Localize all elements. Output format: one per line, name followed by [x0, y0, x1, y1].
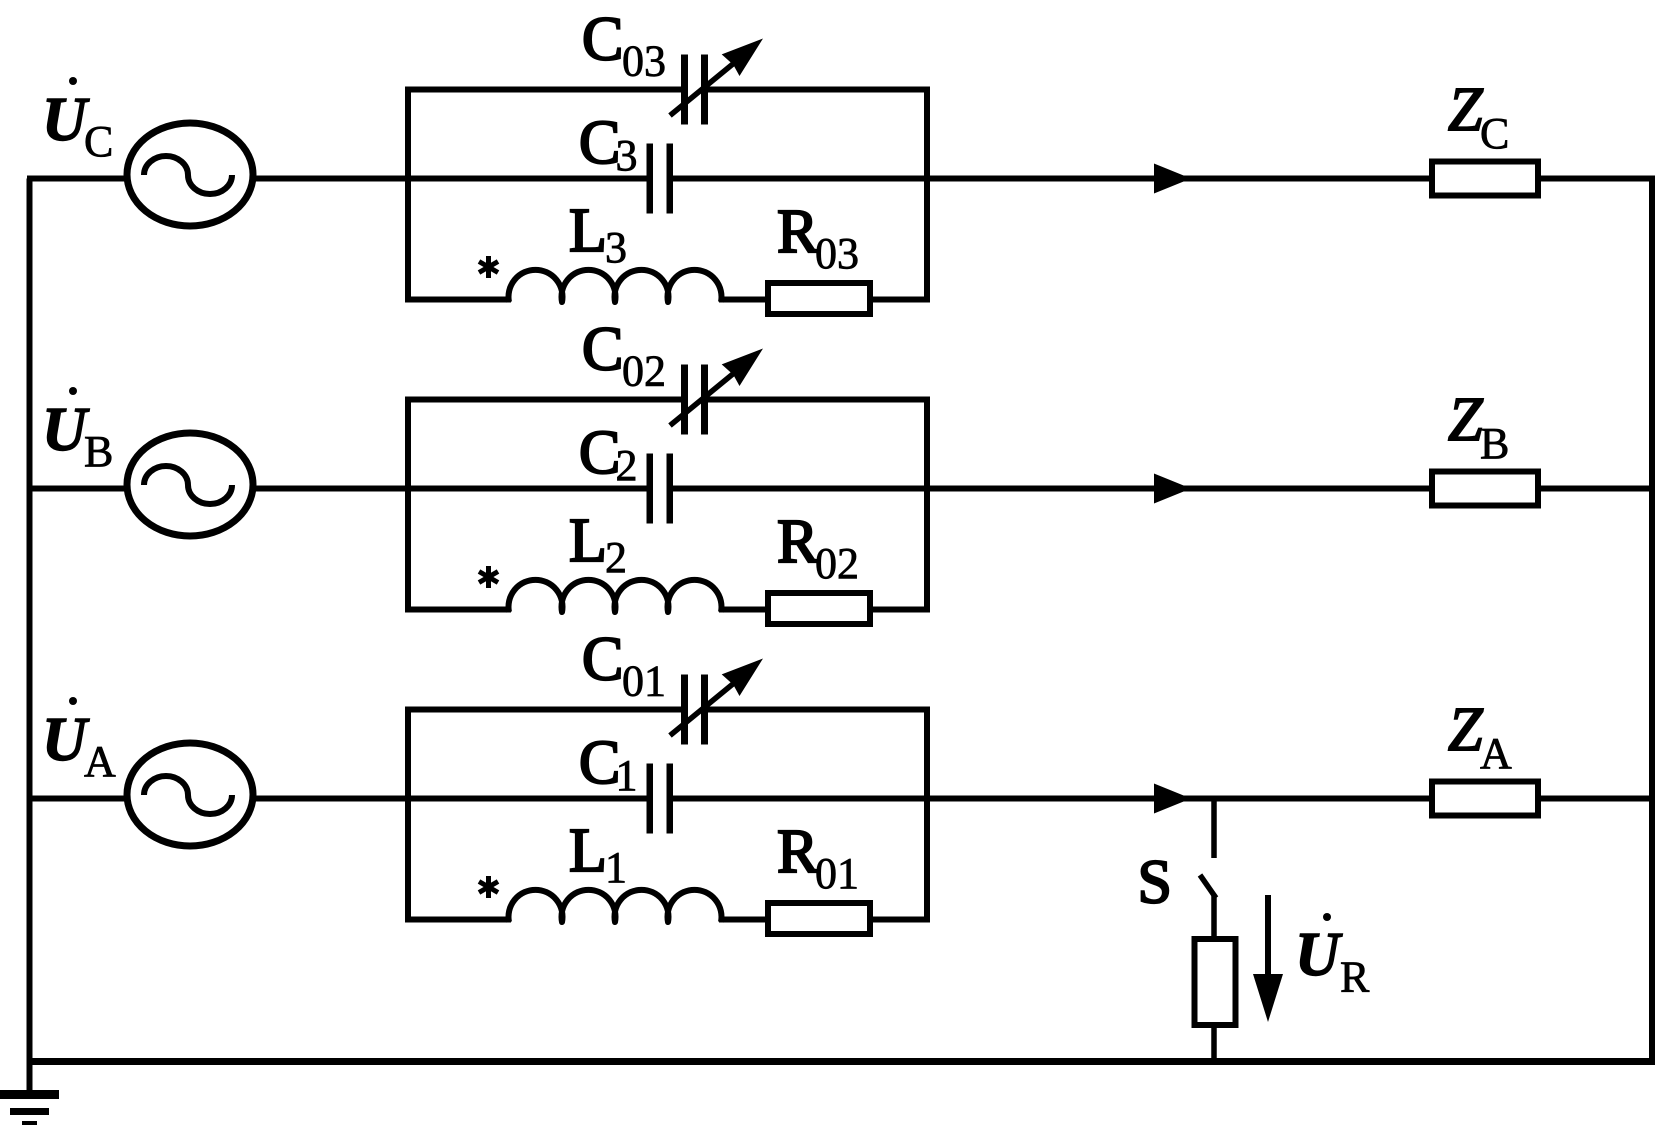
wire: bottom branch left	[405, 297, 511, 303]
wire: right bus	[1649, 176, 1655, 1062]
svg-text:L: L	[569, 197, 607, 265]
svg-text:Z: Z	[1448, 76, 1483, 144]
svg-text:C: C	[1480, 109, 1509, 158]
wire: ZC to right bus	[1541, 176, 1655, 182]
svg-text:L: L	[569, 507, 607, 575]
inductor L2	[509, 580, 722, 612]
current arrow phase C	[1154, 164, 1191, 194]
node: box right bus	[924, 710, 930, 920]
inductor L1	[509, 890, 722, 922]
svg-text:B: B	[84, 427, 113, 476]
svg-text:3: 3	[605, 223, 627, 272]
label C01	[582, 626, 666, 706]
label L2	[569, 507, 627, 582]
wire: top branch right	[705, 707, 930, 713]
wire: ZA to right bus	[1541, 796, 1655, 802]
wire: bottom return bus	[27, 1058, 1656, 1065]
svg-text:03: 03	[815, 229, 859, 278]
wire: source to capacitor C1	[250, 796, 648, 802]
variable capacitor C03 plates	[681, 55, 708, 125]
label UR	[1295, 913, 1370, 1002]
svg-text:1: 1	[605, 843, 627, 892]
wire: inductor to R02	[719, 607, 768, 613]
AC source UC	[127, 123, 253, 226]
label R02	[777, 508, 859, 588]
label C1	[579, 729, 638, 800]
wire: inductor to R01	[719, 917, 768, 923]
svg-text:C: C	[582, 6, 623, 74]
variable capacitor C01 plates	[681, 675, 708, 745]
svg-text:C: C	[582, 626, 623, 694]
wire: capacitor to ZA	[671, 796, 1432, 802]
svg-text:A: A	[1480, 729, 1512, 778]
svg-text:R: R	[1340, 953, 1370, 1002]
wire: source to capacitor C2	[250, 486, 648, 492]
label UB	[42, 387, 113, 476]
svg-text:R: R	[777, 508, 819, 576]
variable capacitor C02 arrow	[670, 349, 763, 426]
variable capacitor C02 plates	[681, 365, 708, 435]
svg-text:C: C	[579, 419, 620, 487]
voltage arrow UR	[1253, 895, 1283, 1022]
label C02	[582, 316, 666, 396]
label C03	[582, 6, 666, 86]
wire: source to capacitor C3	[250, 176, 648, 182]
polarity mark *	[479, 256, 498, 278]
svg-text:01: 01	[622, 657, 666, 706]
current arrow phase B	[1154, 474, 1191, 504]
svg-text:R: R	[777, 818, 819, 886]
wire: R02 to box right	[870, 607, 930, 613]
svg-text:U: U	[42, 86, 90, 154]
svg-text:02: 02	[815, 539, 859, 588]
label ZB	[1448, 386, 1509, 468]
svg-text:1: 1	[616, 751, 638, 800]
wire: ZB to right bus	[1541, 486, 1655, 492]
svg-text:S: S	[1138, 849, 1172, 917]
node: box right bus	[924, 90, 930, 300]
svg-text:B: B	[1480, 419, 1509, 468]
wire: top branch left	[405, 397, 683, 403]
wire: bottom branch left	[405, 607, 511, 613]
resistor R01	[768, 903, 870, 934]
impedance ZA	[1432, 782, 1538, 816]
AC source UB	[127, 433, 253, 536]
wire: bus to source B	[27, 486, 127, 492]
wire: R01 to box right	[870, 917, 930, 923]
svg-text:R: R	[777, 198, 819, 266]
impedance ZC	[1432, 162, 1538, 196]
label L1	[569, 817, 627, 892]
inductor L3	[509, 270, 722, 302]
variable capacitor C03 arrow	[670, 39, 763, 116]
AC source UA	[127, 743, 253, 846]
svg-text:03: 03	[622, 37, 666, 86]
label C3	[579, 109, 638, 180]
capacitor C1 plates	[647, 764, 674, 834]
svg-text:3: 3	[616, 131, 638, 180]
svg-text:C: C	[84, 117, 113, 166]
switch S blade	[1200, 875, 1216, 941]
resistor R02	[768, 593, 870, 624]
svg-text:U: U	[1295, 921, 1343, 989]
label ZC	[1448, 76, 1509, 158]
node: box left bus	[405, 710, 411, 920]
svg-text:C: C	[579, 729, 620, 797]
wire: inductor to R03	[719, 297, 768, 303]
label UC	[42, 77, 113, 166]
wire: junction to switch S	[1211, 799, 1217, 859]
label C2	[579, 419, 638, 490]
svg-text:U: U	[42, 396, 90, 464]
wire: capacitor to ZB	[671, 486, 1432, 492]
svg-text:C: C	[582, 316, 623, 384]
wire: top branch right	[705, 87, 930, 93]
svg-text:01: 01	[815, 849, 859, 898]
wire: bus to source A	[27, 796, 127, 802]
svg-text:C: C	[579, 109, 620, 177]
resistor R load	[1195, 939, 1236, 1025]
label L3	[569, 197, 627, 272]
polarity mark *	[479, 566, 498, 588]
svg-text:2: 2	[616, 441, 638, 490]
impedance ZB	[1432, 472, 1538, 506]
wire: bottom branch left	[405, 917, 511, 923]
svg-text:Z: Z	[1448, 386, 1483, 454]
node: box right bus	[924, 400, 930, 610]
polarity mark *	[479, 876, 498, 898]
svg-text:U: U	[42, 706, 90, 774]
wire: capacitor to ZC	[671, 176, 1432, 182]
wire: R03 to box right	[870, 297, 930, 303]
wire: bus to source C	[27, 176, 127, 182]
node: box left bus	[405, 90, 411, 300]
label ZA	[1448, 696, 1512, 778]
wire: left neutral bus	[27, 179, 33, 1095]
svg-text:A: A	[84, 737, 116, 786]
current arrow phase A	[1154, 784, 1191, 814]
node: box left bus	[405, 400, 411, 610]
svg-text:02: 02	[622, 347, 666, 396]
ground	[0, 1090, 59, 1125]
wire: top branch left	[405, 87, 683, 93]
wire: top branch left	[405, 707, 683, 713]
resistor R03	[768, 283, 870, 314]
label UA	[42, 697, 116, 786]
svg-text:L: L	[569, 817, 607, 885]
label R01	[777, 818, 859, 898]
variable capacitor C01 arrow	[670, 659, 763, 736]
capacitor C3 plates	[647, 144, 674, 214]
label R03	[777, 198, 859, 278]
capacitor C2 plates	[647, 454, 674, 524]
svg-text:Z: Z	[1448, 696, 1483, 764]
wire: resistor to bottom bus	[1211, 1025, 1217, 1062]
wire: top branch right	[705, 397, 930, 403]
svg-text:2: 2	[605, 533, 627, 582]
